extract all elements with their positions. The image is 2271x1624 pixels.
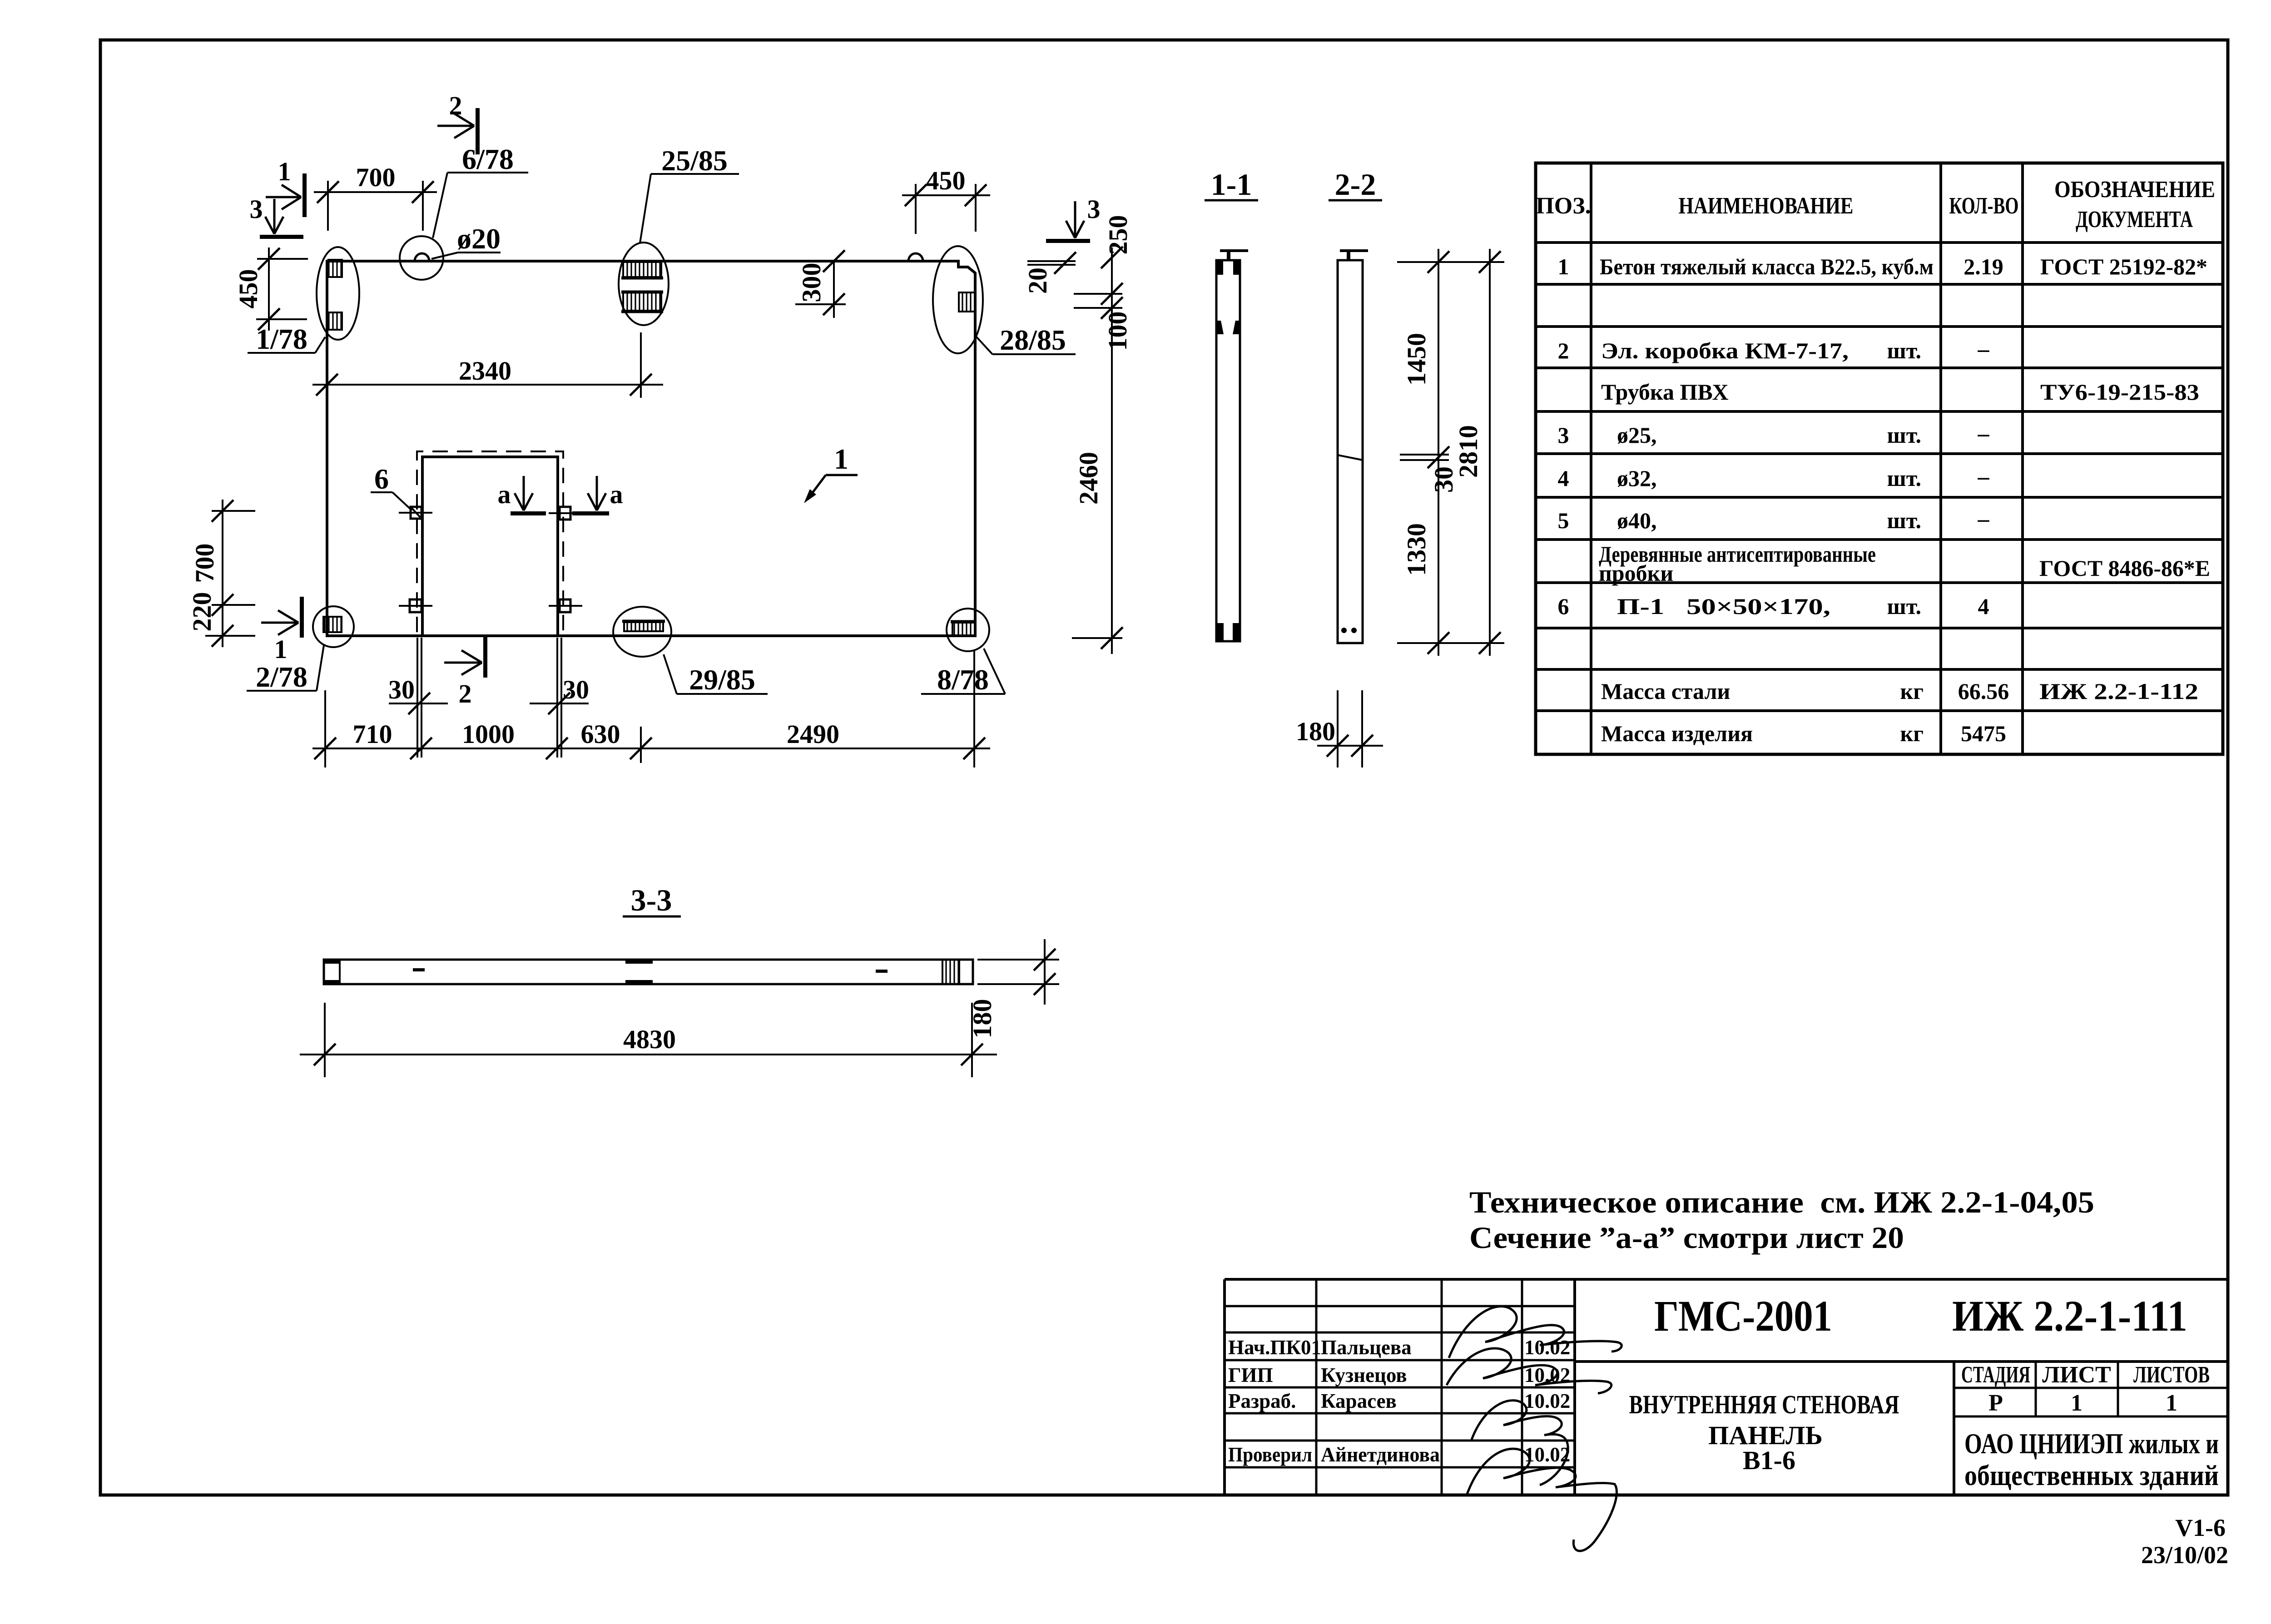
svg-text:НАИМЕНОВАНИЕ: НАИМЕНОВАНИЕ (1679, 193, 1854, 219)
svg-text:220: 220 (187, 592, 217, 632)
svg-text:Техническое описание см. ИЖ 2: Техническое описание см. ИЖ 2.2-1-04,05 (1469, 1185, 2094, 1219)
svg-text:450: 450 (926, 166, 966, 195)
1-1 hoisting loop (1227, 250, 1230, 260)
svg-text:180: 180 (967, 999, 997, 1039)
callout circle 8/78 (947, 609, 989, 651)
embedded plate 1/78 lower (328, 312, 342, 330)
svg-text:КОЛ-ВО: КОЛ-ВО (1949, 193, 2019, 219)
svg-text:ИЖ 2.2-1-111: ИЖ 2.2-1-111 (1952, 1292, 2187, 1340)
svg-text:6: 6 (1558, 594, 1569, 619)
3-3 mid embedded marks (25/85) (625, 960, 653, 964)
svg-text:630: 630 (581, 719, 620, 749)
callout oval 1/78 (317, 247, 359, 340)
door opening (solid jambs and lintel line) (422, 457, 558, 636)
wooden plug P-1 bottom-left (410, 599, 421, 612)
svg-text:1: 1 (1558, 254, 1569, 279)
svg-text:Пальцева: Пальцева (1321, 1336, 1412, 1359)
svg-text:1/78: 1/78 (256, 323, 307, 355)
section marker 2 bottom (483, 636, 487, 678)
embedded plate 8/78 (952, 623, 975, 636)
2-2 hoisting loop (1347, 250, 1350, 260)
svg-text:28/85: 28/85 (1000, 324, 1066, 356)
svg-text:700: 700 (356, 163, 396, 192)
svg-text:ИЖ 2.2-1-112: ИЖ 2.2-1-112 (2039, 678, 2198, 704)
svg-text:ГОСТ 8486-86*Е: ГОСТ 8486-86*Е (2039, 555, 2210, 581)
svg-text:Разраб.: Разраб. (1228, 1390, 1296, 1412)
svg-text:ГИП: ГИП (1228, 1364, 1273, 1386)
svg-text:общественных зданий: общественных зданий (1964, 1459, 2219, 1491)
svg-text:шт.: шт. (1887, 594, 1921, 619)
svg-text:Нач.ПК01: Нач.ПК01 (1228, 1336, 1321, 1359)
embedded plate 2/78 (323, 617, 342, 632)
svg-text:2340: 2340 (459, 356, 511, 386)
svg-text:В1-6: В1-6 (1743, 1446, 1795, 1475)
svg-text:V1-6: V1-6 (2175, 1514, 2226, 1541)
2-2 tube dots (1341, 628, 1347, 633)
svg-text:–: – (1978, 421, 1990, 446)
section marker 1 top (302, 173, 307, 217)
svg-text:1: 1 (278, 157, 291, 186)
svg-text:1450: 1450 (1402, 333, 1431, 386)
title block grid (1225, 1278, 2228, 1281)
svg-text:–: – (1978, 506, 1990, 531)
svg-text:ОБОЗНАЧЕНИЕ: ОБОЗНАЧЕНИЕ (2054, 177, 2215, 203)
svg-text:6: 6 (374, 463, 389, 495)
svg-text:6/78: 6/78 (462, 143, 514, 175)
svg-text:П-1 50×50×170,: П-1 50×50×170, (1617, 594, 1830, 619)
svg-text:30: 30 (388, 675, 415, 704)
specification table grid (1536, 163, 2223, 754)
svg-text:–: – (1978, 464, 1990, 489)
svg-text:1: 1 (834, 443, 848, 475)
svg-text:23/10/02: 23/10/02 (2141, 1541, 2228, 1569)
svg-text:Масса изделия: Масса изделия (1601, 721, 1753, 746)
callout circle o20 hole (400, 236, 443, 280)
svg-text:4830: 4830 (623, 1025, 676, 1054)
section 2-2 panel bar (1338, 260, 1363, 643)
svg-text:ГОСТ 25192-82*: ГОСТ 25192-82* (2040, 254, 2207, 279)
embedded plate 28/85 (959, 292, 975, 312)
dim chain 1450/30/1330 (1438, 249, 1439, 656)
svg-text:2460: 2460 (1074, 452, 1103, 505)
wall panel outline (plan) (327, 261, 975, 636)
svg-text:шт.: шт. (1887, 508, 1921, 533)
wooden plug P-1 bottom-right (560, 599, 570, 612)
svg-text:3-3: 3-3 (631, 883, 672, 917)
svg-text:2490: 2490 (787, 719, 839, 749)
svg-text:ЛИСТОВ: ЛИСТОВ (2133, 1362, 2210, 1388)
svg-text:кг: кг (1900, 721, 1924, 746)
1-1 embedded marks top (1216, 261, 1223, 275)
wooden plug P-1 top-left (item 6) (411, 507, 421, 519)
svg-text:180: 180 (1296, 717, 1335, 746)
svg-text:Кузнецов: Кузнецов (1321, 1364, 1407, 1386)
svg-text:710: 710 (353, 719, 392, 749)
svg-text:ОАО ЦНИИЭП жилых и: ОАО ЦНИИЭП жилых и (1964, 1427, 2219, 1460)
svg-text:1: 1 (2071, 1390, 2083, 1416)
svg-text:2.19: 2.19 (1964, 254, 2003, 279)
svg-text:ДОКУМЕНТА: ДОКУМЕНТА (2076, 207, 2193, 233)
svg-text:Сечение ”а-а” смотри лист 20: Сечение ”а-а” смотри лист 20 (1469, 1220, 1904, 1255)
svg-text:Р: Р (1988, 1390, 2003, 1416)
svg-text:8/78: 8/78 (937, 663, 989, 696)
svg-text:шт.: шт. (1887, 338, 1921, 363)
svg-text:шт.: шт. (1887, 422, 1921, 448)
svg-text:20: 20 (1023, 267, 1052, 294)
svg-text:ø20: ø20 (457, 223, 501, 255)
svg-text:1: 1 (2166, 1390, 2177, 1416)
svg-text:ВНУТРЕННЯЯ СТЕНОВАЯ: ВНУТРЕННЯЯ СТЕНОВАЯ (1629, 1390, 1899, 1419)
svg-text:1-1: 1-1 (1211, 167, 1252, 202)
svg-text:2: 2 (459, 679, 472, 708)
svg-text:5: 5 (1558, 508, 1569, 533)
svg-text:2810: 2810 (1453, 425, 1483, 478)
svg-text:–: – (1978, 336, 1990, 361)
svg-text:кг: кг (1900, 678, 1924, 704)
hoisting loop left (415, 253, 429, 261)
svg-text:4: 4 (1978, 594, 1989, 619)
svg-text:ТУ6-19-215-83: ТУ6-19-215-83 (2040, 379, 2199, 405)
svg-text:ЛИСТ: ЛИСТ (2042, 1362, 2111, 1388)
embedded plate 25/85 upper (623, 262, 661, 277)
svg-text:66.56: 66.56 (1958, 678, 2009, 704)
svg-text:300: 300 (797, 263, 826, 302)
svg-text:450: 450 (233, 269, 263, 309)
callout circle 2/78 (313, 606, 354, 647)
svg-text:a: a (498, 480, 511, 509)
svg-text:ПОЗ.: ПОЗ. (1536, 193, 1591, 219)
svg-text:1330: 1330 (1402, 523, 1431, 576)
svg-text:ГМС-2001: ГМС-2001 (1654, 1292, 1832, 1340)
svg-text:Трубка ПВХ: Трубка ПВХ (1601, 379, 1729, 405)
svg-text:Проверил: Проверил (1228, 1443, 1312, 1466)
svg-text:ø25,: ø25, (1617, 422, 1657, 448)
door opening dashed contour (417, 451, 563, 632)
signature squiggles (1449, 1307, 1621, 1358)
3-3 plug mark left (413, 968, 425, 971)
svg-text:5475: 5475 (1961, 721, 2006, 746)
svg-text:2: 2 (1558, 338, 1569, 363)
svg-text:a: a (610, 480, 623, 509)
svg-text:Масса стали: Масса стали (1601, 678, 1730, 704)
dim 2810 (1489, 249, 1491, 656)
section marker 2 top (476, 108, 480, 154)
2-2 tube joint line (1338, 455, 1363, 460)
svg-text:25/85: 25/85 (661, 144, 728, 177)
svg-text:10.02: 10.02 (1524, 1336, 1570, 1359)
svg-text:Эл. коробка КМ-7-17,: Эл. коробка КМ-7-17, (1601, 338, 1849, 363)
svg-text:3: 3 (250, 194, 263, 224)
callout oval 25/85 (619, 243, 669, 325)
svg-text:Карасев: Карасев (1321, 1390, 1397, 1412)
embedded plate 29/85 (624, 622, 663, 631)
extension lines right of 2-2 (1397, 261, 1504, 263)
hoisting loop right (908, 253, 923, 261)
svg-text:100: 100 (1103, 312, 1132, 351)
wooden plug P-1 top-right (560, 507, 570, 520)
svg-text:шт.: шт. (1887, 465, 1921, 491)
svg-text:4: 4 (1558, 465, 1569, 491)
svg-text:3: 3 (1558, 422, 1569, 448)
section marker 1 bottom (300, 597, 304, 638)
svg-text:10.02: 10.02 (1524, 1390, 1570, 1412)
svg-text:ø40,: ø40, (1617, 508, 1657, 533)
svg-text:2/78: 2/78 (256, 661, 307, 693)
svg-text:2-2: 2-2 (1335, 167, 1376, 202)
svg-text:Айнетдинова: Айнетдинова (1321, 1443, 1440, 1466)
3-3 embedded end plate hatch (942, 960, 959, 984)
svg-text:250: 250 (1103, 215, 1133, 255)
svg-text:1000: 1000 (462, 719, 515, 749)
embedded plate 25/85 lower (623, 292, 661, 311)
section 1-1 panel bar (1216, 260, 1240, 641)
3-3 plug mark right (876, 970, 888, 973)
1-1 embedded marks middle (1216, 321, 1224, 334)
section 3-3 panel bar (324, 960, 973, 984)
svg-text:пробки: пробки (1599, 560, 1673, 586)
callout oval 29/85 (613, 607, 671, 657)
1-1 embedded marks bottom (1216, 623, 1224, 640)
embedded plate 1/78 upper (328, 260, 342, 277)
svg-text:1: 1 (274, 634, 288, 664)
svg-text:700: 700 (190, 544, 219, 583)
callout oval 28/85 (933, 246, 983, 353)
svg-text:Бетон тяжелый класса В22.5, ку: Бетон тяжелый класса В22.5, куб.м (1600, 254, 1934, 279)
svg-text:ø32,: ø32, (1617, 465, 1657, 491)
svg-text:СТАДИЯ: СТАДИЯ (1961, 1362, 2030, 1388)
svg-text:29/85: 29/85 (689, 663, 755, 696)
svg-text:2: 2 (449, 91, 462, 120)
svg-text:30: 30 (563, 675, 589, 704)
3-3 left end marks (324, 960, 340, 964)
svg-text:3: 3 (1087, 194, 1101, 224)
